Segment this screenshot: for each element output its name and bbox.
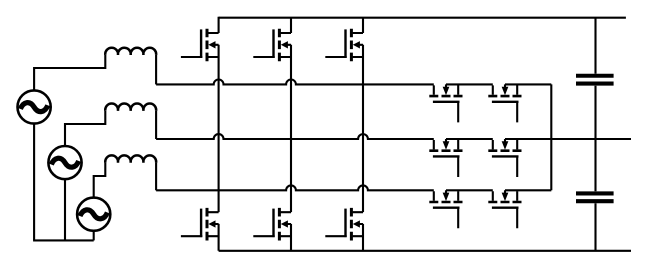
wire L1 to phase a <box>155 55 157 85</box>
transistor Q10 (row2 right) <box>488 139 521 177</box>
wire L2 to phase b <box>155 111 157 139</box>
neutral bus <box>550 84 552 190</box>
neutral tie wire <box>33 239 94 241</box>
V2 sine wave <box>51 158 78 167</box>
transistor Q8 (row1 right) <box>488 84 521 122</box>
AC source V1 <box>17 90 50 123</box>
row2 output wire to capacitor midpoint <box>505 138 631 140</box>
transistor Q1 (top leg1) <box>181 29 219 62</box>
capacitor rail top segment <box>594 18 596 74</box>
row2 inter-fet wire <box>446 138 493 140</box>
row1 inter-fet wire <box>446 83 493 85</box>
row3 output wire <box>505 189 551 191</box>
wire V1 bottom <box>33 124 35 241</box>
transistor Q4 (bottom leg1) <box>181 208 219 241</box>
phase b line with hops over leg1 and leg3 <box>156 134 434 139</box>
AC source V3 <box>77 198 110 231</box>
inductor L1 <box>105 48 156 55</box>
transistor Q11 (row3 left) <box>429 190 462 228</box>
row1 output wire <box>505 83 551 85</box>
leg 1 wires <box>218 17 220 251</box>
wire V3 bottom <box>93 231 95 241</box>
leg 3 wires <box>362 18 364 251</box>
inductor L3 <box>105 155 156 162</box>
capacitor rail bottom segment <box>594 203 596 251</box>
transistor Q7 (row1 left) <box>429 84 462 122</box>
wire V2 top to inductor L2 <box>65 111 105 146</box>
wire V3 top to inductor L3 <box>94 163 106 198</box>
bottom DC rail <box>219 250 631 252</box>
transistor Q3 (top leg3) <box>325 29 363 62</box>
phase c line with hops over leg2 and leg3 <box>156 185 434 190</box>
wire V2 bottom <box>64 179 66 240</box>
AC source V2 <box>48 146 81 179</box>
wire V1 top to inductor L1 <box>34 55 105 91</box>
phase a line with hops over leg1 and leg2 <box>156 80 434 85</box>
transistor Q12 (row3 right) <box>488 190 521 228</box>
transistor Q2 (top leg2) <box>253 29 291 62</box>
transistor Q5 (bottom leg2) <box>253 208 291 241</box>
capacitor rail middle segment <box>594 86 596 192</box>
inductor L2 <box>105 104 156 111</box>
leg 2 wires <box>290 18 292 251</box>
capacitor C2 <box>576 193 614 201</box>
transistor Q6 (bottom leg3) <box>325 208 363 241</box>
V1 sine wave <box>20 103 47 112</box>
capacitor C1 <box>576 76 614 84</box>
transistor Q9 (row2 left) <box>429 139 462 177</box>
wire L3 to phase c <box>155 163 157 191</box>
top DC rail <box>219 17 626 19</box>
V3 sine wave <box>80 210 107 219</box>
row3 inter-fet wire <box>446 189 493 191</box>
